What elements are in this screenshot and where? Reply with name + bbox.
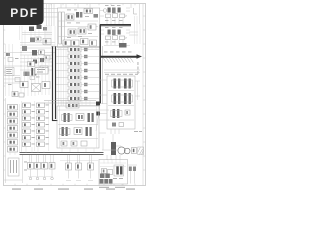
wires right of manifold (99, 110, 109, 133)
cylinder drop Q2 (66, 155, 72, 181)
motor valve bar J2a (114, 93, 117, 104)
control block F4b (35, 68, 48, 75)
text dashes below manifold (99, 187, 125, 188)
relief blob F1a (29, 27, 34, 32)
valve H2 dark mark (40, 58, 44, 62)
pump circle B0 (103, 9, 107, 13)
wire bundle to center (20, 25, 56, 46)
drain diagonal wire (96, 105, 100, 131)
valve G3 (42, 82, 50, 89)
motor lower valve J3a (113, 109, 116, 118)
pilot manifold label dashes (113, 177, 123, 180)
motor valve bar J2d (129, 93, 131, 104)
bracket fitting right top (134, 8, 138, 14)
cylinder drop P2 (35, 155, 41, 180)
wires right of motor block (135, 81, 140, 100)
valve G1 (20, 82, 28, 88)
wire net below F3 (20, 59, 52, 63)
relay column rails (22, 101, 49, 151)
valve A5 (68, 29, 76, 35)
pilot manifold internal wires (100, 160, 126, 167)
valve body D5 (113, 36, 118, 40)
manifold valve bars K4 (60, 127, 71, 136)
supply band elbow (52, 120, 58, 122)
pilot cluster R3 lower (100, 174, 113, 184)
manifold inner wire row 2 (58, 138, 98, 140)
motor valve bar J2c (124, 93, 127, 104)
valve A3 (84, 9, 93, 14)
solenoid D2 (112, 30, 116, 36)
scatter mark S4 (30, 76, 40, 80)
valve bank section 9 (66, 103, 97, 108)
manifold valve bars K6 (86, 127, 92, 136)
wires under bus (104, 70, 140, 72)
scatter mark S1 (8, 58, 19, 62)
pilot valve pair R2 (114, 165, 124, 176)
label box left edge (5, 68, 14, 76)
cylinder drop Q3 (76, 155, 82, 181)
valve bank section 5 (56, 75, 99, 80)
long wires left region (6, 44, 50, 96)
pilot valve R1 (102, 169, 113, 175)
motor lower marks J4 (125, 110, 130, 115)
valve F3a (22, 46, 27, 51)
solenoid D1 (108, 30, 111, 35)
wire verticals right of badge (47, 4, 55, 26)
relay column 1 (23, 103, 36, 147)
wire verticals right cluster (135, 16, 141, 44)
scatter mark S2 (44, 56, 50, 61)
wire horizontals under F1 (22, 33, 52, 35)
motor valve bar J1a (114, 79, 117, 89)
solenoid stack item 2 (8, 112, 18, 118)
junction square riser upper (96, 102, 100, 106)
wires below pilot manifold (104, 184, 122, 186)
manifold valve bars K3 (88, 113, 94, 122)
valve F4c (24, 72, 30, 77)
supply band line 1 (52, 46, 54, 121)
filter block dark (119, 43, 127, 48)
grid drop wires to tank line (10, 147, 44, 155)
marks above boundary box (61, 4, 90, 8)
tall tank column 1 (59, 12, 62, 44)
wires right of row D (104, 32, 138, 46)
valve bank section 4 (56, 68, 99, 73)
solenoid D3 (118, 30, 121, 35)
valve bank section 2 (56, 54, 99, 59)
wires right from boundary box (100, 11, 104, 35)
PDF badge (0, 0, 44, 25)
vertical wire right top (131, 4, 140, 24)
pilot manifold box bottom right (99, 160, 128, 185)
title text dashes under frame (12, 189, 135, 190)
row D label dashes (105, 27, 123, 42)
accumulator dark cylinder (111, 142, 116, 155)
valve body D4 (106, 36, 111, 40)
valve bank section 3 (56, 61, 99, 66)
pilot valve cluster row B (103, 8, 130, 25)
motor valve bar J1b (118, 79, 120, 89)
solenoid B1 (108, 8, 111, 13)
motor valve frame J2 (112, 95, 133, 102)
valve bank section 7 (56, 89, 99, 94)
row B label dashes (105, 5, 123, 21)
swing motor block outline (107, 76, 135, 129)
pump circle 1 (118, 147, 125, 154)
valve F3c (39, 50, 45, 55)
solenoid A2 dark pair (76, 12, 82, 18)
valve body D6 (120, 36, 125, 40)
pump labels (134, 130, 142, 133)
valve row A8 (63, 39, 97, 47)
spring D7 (125, 30, 130, 39)
relay column 2 (37, 103, 50, 147)
valve body B4 (106, 14, 111, 18)
motor valve bar J2b (118, 93, 120, 104)
wires down from boundary box (60, 48, 96, 50)
drawing frame border (4, 4, 146, 186)
solenoid stack item 3 (8, 119, 18, 125)
label dashes under bus (105, 73, 138, 76)
svg-text:PDF: PDF (10, 6, 38, 20)
tiny marks left bottom (4, 179, 22, 181)
valve A7 (88, 24, 96, 30)
junction square riser lower (96, 112, 100, 116)
valve F2a (30, 38, 35, 43)
motor valve bar J1c (124, 79, 127, 89)
motor valve frame J1 (112, 80, 133, 87)
wires left of motor block (100, 80, 107, 114)
wire verticals upper left net (22, 26, 45, 46)
pilot valve cluster row D (106, 30, 131, 46)
riser pipe dark (99, 25, 101, 104)
manifold bottom marks K7 (61, 141, 87, 146)
spring B7 (125, 8, 130, 17)
strainer hatched (138, 147, 144, 155)
stack feed wire (5, 98, 7, 155)
vertical label column right (137, 62, 140, 74)
stack side wires (20, 104, 22, 152)
A box label dashes (67, 10, 92, 38)
main bus with arrow (100, 56, 138, 58)
frame tick marks right (143, 16, 146, 170)
frame tick marks top (15, 4, 135, 6)
bus line upper right second (100, 25, 131, 27)
solenoid B2 (112, 8, 116, 14)
valve A6 (78, 28, 86, 34)
valve H3 bar pair (31, 68, 36, 76)
tall tank column 2 (62, 12, 65, 44)
motor block bottom marks (112, 123, 124, 127)
legend box bottom left (8, 158, 19, 176)
left drain wire (6, 155, 23, 183)
valve body B5 (113, 14, 118, 18)
center manifold box (57, 106, 99, 148)
valve A1 (66, 14, 74, 20)
wire horizontals mid left (4, 43, 55, 71)
manifold inner wire row 1 (58, 110, 98, 125)
valve bank section 6 (56, 82, 99, 87)
tank line double (20, 153, 104, 155)
motor block inner wires (108, 91, 134, 121)
manifold valve K5 (74, 128, 82, 135)
solenoid stack item 6 (8, 140, 18, 146)
return line pair left (44, 101, 96, 104)
valve H4 (40, 66, 48, 72)
gauge A4 (94, 14, 99, 18)
scatter mark S3 (8, 78, 20, 85)
valve F4a (28, 62, 35, 67)
row B drop wires (107, 18, 123, 24)
coupling box (132, 148, 137, 154)
page background (0, 0, 149, 198)
motor lower frame J3 (111, 111, 123, 117)
solenoid B3 (118, 8, 121, 13)
valve F3b (32, 50, 37, 56)
solenoid stack item 5 (8, 133, 18, 139)
cylinder drop P4 (49, 155, 55, 180)
pump suction wires (102, 134, 121, 160)
valve bank section 1 (56, 47, 99, 52)
sensor pair above stack (12, 92, 24, 98)
arrowhead on bus (137, 54, 143, 58)
valve F2c (43, 39, 51, 45)
cylinder drop P1 (28, 155, 34, 180)
valve bank section 8 (56, 96, 99, 101)
bus tap wires (103, 58, 133, 63)
supply band line 2 (55, 46, 57, 119)
frame tick marks bottom (15, 184, 135, 186)
motor valve bar J1d (129, 79, 131, 89)
solenoid stack item 7 (8, 147, 18, 153)
wire row across upper group (58, 21, 98, 37)
label dashes above bus (104, 51, 132, 54)
solenoid stack item 1 (8, 105, 18, 111)
row D drop wires (107, 40, 123, 45)
relief blob F1b (37, 25, 42, 29)
manifold guide verticals (60, 106, 97, 148)
pump circle 2 (124, 148, 130, 154)
pilot boundary box upper middle (58, 8, 100, 48)
cylinder drop Q4 (88, 155, 94, 181)
wires below manifold (62, 148, 94, 153)
drop connector wire (28, 161, 98, 177)
small labels mid bottom-left (24, 162, 27, 171)
crossover valve G2 (32, 84, 41, 92)
gauge left edge (6, 53, 10, 56)
valve body B6 (120, 14, 125, 18)
frame ruler line right (142, 4, 144, 186)
riser second line (102, 46, 104, 104)
frame tick marks left (4, 16, 6, 170)
bank guide verticals (59, 48, 67, 106)
motor lower valve J3b (117, 109, 119, 118)
wires below motor block (111, 129, 119, 134)
wires above manifold (62, 101, 90, 106)
manifold valve K2 (76, 114, 84, 121)
cylinder drop P3 (42, 155, 48, 180)
bus line upper right (100, 24, 131, 26)
wire horizontals right of badge (44, 9, 58, 18)
valve H1 dark mark (33, 60, 37, 64)
aux valve pair right of manifold (128, 165, 137, 184)
manifold valve bars K1 (62, 113, 73, 122)
header line of valve bank (51, 46, 100, 48)
wire horizontals left lower (4, 76, 20, 84)
relief blob F1c (43, 27, 47, 31)
valve F2b (36, 37, 41, 41)
solenoid stack item 4 (8, 126, 18, 132)
